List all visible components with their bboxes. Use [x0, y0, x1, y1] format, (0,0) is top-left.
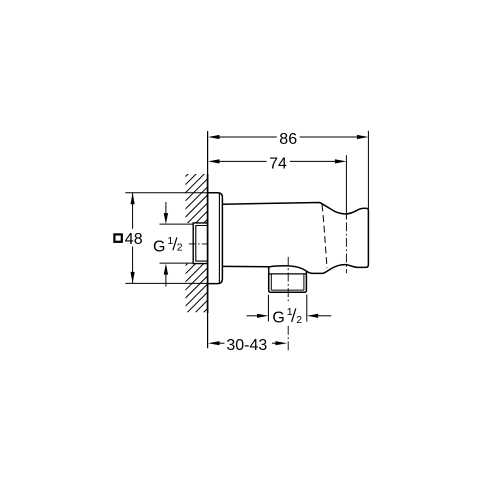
insert thread arrowheads	[164, 213, 168, 275]
dimension 30-43 line	[219, 342, 276, 344]
extension line 74 right	[345, 155, 347, 219]
dimension 48 arrows	[131, 193, 135, 284]
svg-text:1: 1	[287, 306, 293, 318]
extension line 86 right	[367, 131, 369, 209]
dimension 86 line	[219, 136, 357, 138]
svg-text:1: 1	[167, 235, 173, 247]
hidden edge dashed curve	[322, 205, 327, 269]
svg-text:G: G	[272, 309, 284, 326]
square symbol	[114, 234, 121, 241]
dimension 48 extension lines	[125, 193, 207, 284]
threaded insert G1/2	[193, 223, 208, 264]
svg-text:2: 2	[296, 314, 302, 326]
dimension 48 line	[132, 193, 134, 284]
svg-text:48: 48	[125, 231, 143, 248]
dimension 74 arrows	[208, 159, 346, 163]
dimension G1/2 bottom arrows	[247, 315, 332, 317]
svg-text:2: 2	[177, 242, 183, 254]
insert centerline	[189, 243, 208, 245]
svg-text:86: 86	[279, 131, 297, 148]
flange	[208, 193, 223, 284]
dimension G1/2 bottom extension lines	[268, 295, 306, 322]
label G1/2 left	[153, 235, 183, 256]
hook centerline	[345, 222, 347, 273]
dimension 74 line	[219, 160, 336, 162]
svg-text:G: G	[153, 238, 165, 255]
insert thread arrows	[160, 202, 194, 287]
outlet nipple	[269, 267, 307, 292]
wall hatch	[33, 166, 350, 321]
label G1/2 bottom	[272, 306, 302, 326]
dimension G1/2 bottom arrowheads	[257, 314, 318, 318]
wall face line	[207, 131, 209, 348]
dimension 86 arrows	[208, 135, 368, 139]
dimension 30-43 arrows	[208, 341, 287, 345]
nipple centerline	[287, 257, 289, 351]
body outline	[223, 203, 369, 274]
svg-text:30-43: 30-43	[226, 337, 267, 354]
svg-text:74: 74	[269, 155, 287, 172]
